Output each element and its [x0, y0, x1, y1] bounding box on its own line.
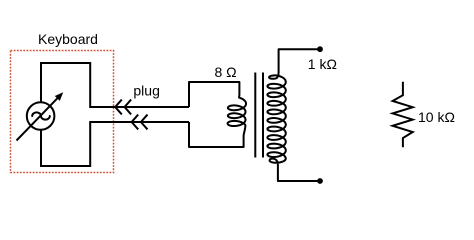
transformer secondary winding with terminal wires	[267, 49, 320, 181]
svg-text:10 kΩ: 10 kΩ	[418, 109, 455, 125]
plug chevron bottom pair	[132, 115, 148, 130]
source variable arrow head	[55, 92, 63, 101]
svg-text:plug: plug	[133, 82, 159, 98]
terminal node bottom	[317, 178, 323, 184]
source V1 variable AC source circle	[27, 102, 55, 130]
svg-text:8 Ω: 8 Ω	[215, 64, 237, 80]
resistor R load zigzag	[393, 82, 413, 148]
wire keyboard loop with plug leads	[41, 63, 189, 166]
plug chevron top pair	[115, 100, 131, 115]
source variable arrow shaft	[17, 97, 59, 141]
transformer primary winding with loop wires	[189, 82, 246, 147]
source sine wave	[32, 112, 50, 119]
keyboard dashed enclosure box	[11, 51, 114, 173]
svg-text:1 kΩ: 1 kΩ	[308, 56, 337, 72]
terminal node top	[317, 46, 323, 52]
transformer core lines	[255, 73, 263, 158]
svg-text:Keyboard: Keyboard	[38, 31, 98, 47]
